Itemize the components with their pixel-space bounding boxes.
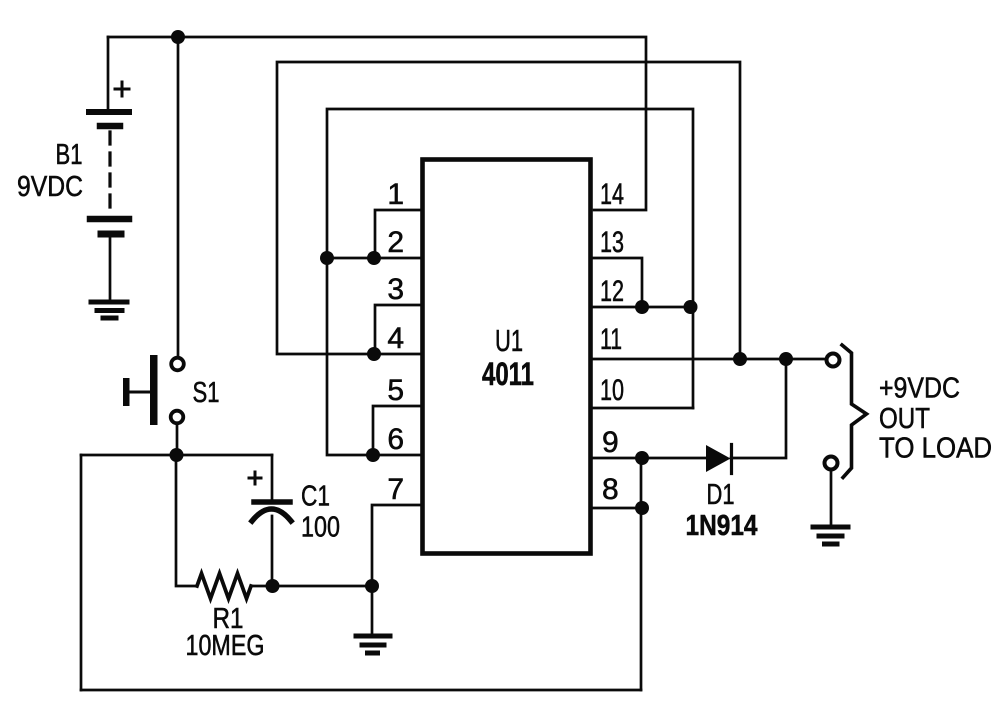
wire lower terminal to ground [830, 470, 833, 524]
node pin2 left junction [320, 251, 334, 265]
wire S1 upper lead [177, 37, 180, 356]
node pin9 junction [635, 451, 649, 465]
node pin11/loop junction [733, 352, 747, 366]
svg-text:3: 3 [387, 273, 404, 306]
wire pin 7 lead [372, 505, 424, 586]
node pin8 junction [635, 501, 649, 515]
svg-text:1: 1 [387, 178, 404, 211]
node pin4 strap junction [367, 347, 381, 361]
wire battery positive lead [107, 37, 110, 109]
svg-text:100: 100 [301, 512, 340, 544]
node pin6 strap junction [366, 448, 380, 462]
svg-text:5: 5 [387, 374, 404, 407]
svg-text:9VDC: 9VDC [17, 171, 83, 203]
node S1 bottom junction [170, 448, 184, 462]
svg-text:B1: B1 [56, 139, 83, 171]
node pin2 strap junction [367, 251, 381, 265]
terminal upper output [827, 354, 840, 367]
svg-text:13: 13 [600, 226, 624, 259]
svg-text:11: 11 [600, 323, 622, 356]
wire pin 11 output rail [592, 358, 825, 361]
wire outer loop: pin 4 to top rail B to pin 11 rail [277, 62, 740, 359]
wire pin13-pin12 strap [592, 258, 642, 307]
brace output [842, 345, 867, 478]
svg-text:1N914: 1N914 [686, 510, 758, 542]
wire pin5-pin6 strap [373, 406, 424, 455]
svg-text:14: 14 [600, 178, 624, 211]
wire pin3-pin4 strap [375, 305, 424, 354]
svg-text:U1: U1 [495, 323, 523, 358]
wire S1 lower lead [176, 424, 179, 455]
IC U1 body [423, 160, 591, 554]
wire pin 2 lead [327, 257, 424, 260]
svg-text:TO LOAD: TO LOAD [879, 433, 992, 465]
wire left branch down [80, 455, 83, 690]
wire ground stem [371, 586, 374, 634]
ground under battery [91, 302, 127, 318]
node pin11/diode junction [779, 352, 793, 366]
wire pin 12 lead [592, 306, 693, 309]
wire pin 8 lead [592, 507, 641, 510]
svg-text:C1: C1 [301, 481, 330, 513]
terminal lower output [825, 457, 838, 470]
svg-text:S1: S1 [193, 377, 220, 409]
svg-text:+9VDC: +9VDC [879, 373, 960, 405]
svg-text:2: 2 [387, 226, 404, 259]
wire diode cathode up to output rail [731, 359, 786, 458]
wire inner loop: pin 6 to rail C down to pin 10 [327, 109, 693, 455]
wire right branch up to pin 8/9 [640, 458, 643, 690]
svg-text:OUT: OUT [879, 403, 930, 435]
svg-text:12: 12 [600, 275, 624, 308]
wire R1 to ground node [251, 585, 372, 588]
battery B1 [89, 82, 129, 299]
wire node row to C1 top [81, 454, 272, 457]
wire top rail from battery to pin 14 [108, 37, 646, 210]
svg-text:10: 10 [600, 374, 624, 407]
wire bottom rail [81, 689, 641, 692]
svg-text:9: 9 [602, 426, 619, 459]
node C1 bottom junction [266, 579, 280, 593]
node junction top rail to S1 [171, 30, 185, 44]
svg-text:4: 4 [387, 322, 404, 355]
node R1/C1/pin7 junction [365, 579, 379, 593]
svg-text:D1: D1 [707, 479, 735, 511]
wire pin 9 lead to diode [592, 457, 707, 460]
wire S1 junction down to R1 [176, 455, 197, 586]
switch S1 [123, 355, 184, 425]
resistor R1 [197, 574, 251, 599]
node pin12 right junction [684, 300, 698, 314]
ground at pin 7 [356, 636, 390, 653]
wire pin1-pin2 strap [375, 210, 424, 258]
svg-text:6: 6 [387, 423, 404, 456]
svg-text:10MEG: 10MEG [186, 630, 265, 662]
diode D1 [706, 445, 732, 474]
svg-text:7: 7 [387, 473, 404, 506]
ground at output [813, 527, 848, 544]
capacitor C1 [249, 455, 291, 586]
svg-text:8: 8 [602, 473, 619, 506]
wire pin 10 lead [592, 407, 693, 410]
svg-text:4011: 4011 [482, 356, 534, 392]
node pin12 strap junction [635, 300, 649, 314]
